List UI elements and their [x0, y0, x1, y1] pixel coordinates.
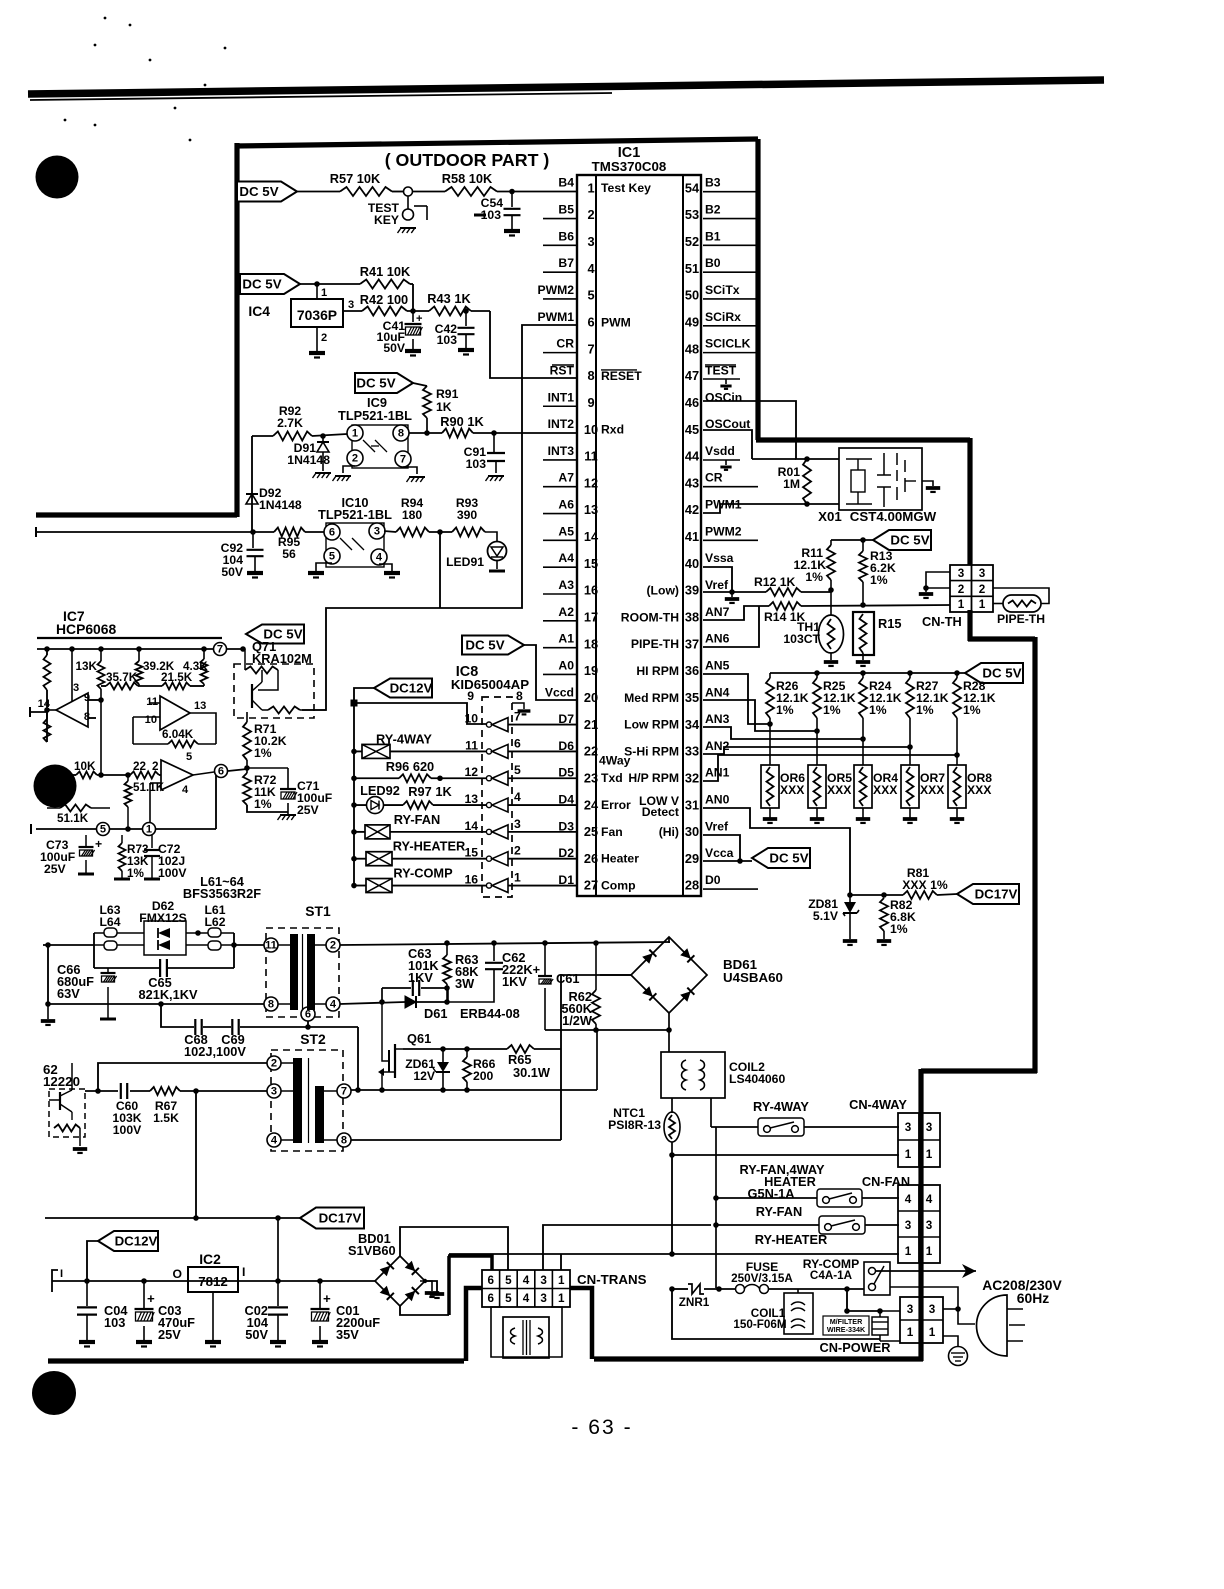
svg-text:40: 40 [685, 556, 699, 571]
wire left exit [36, 527, 274, 537]
svg-text:CST4.00MGW: CST4.00MGW [850, 509, 937, 524]
IC1 pin 31 AN0 [685, 793, 730, 813]
power flag DC 5V (IC8) [462, 636, 524, 655]
svg-text:3: 3 [271, 1086, 277, 1098]
wire [407, 308, 429, 314]
svg-text:12220: 12220 [43, 1074, 80, 1089]
svg-text:RY-FAN: RY-FAN [394, 812, 440, 827]
svg-text:32: 32 [685, 770, 699, 785]
svg-text:Vccd: Vccd [545, 685, 574, 699]
svg-text:L62: L62 [204, 915, 225, 929]
IC1 inner label PWM [601, 315, 631, 329]
svg-text:R97 1K: R97 1K [408, 784, 452, 799]
IC1 inner label Test Key [601, 181, 651, 195]
LED91 [446, 532, 506, 571]
svg-text:26: 26 [584, 851, 598, 866]
wire stub pin 13 [543, 513, 577, 515]
ground IC9 pin7 [403, 467, 425, 482]
wire [410, 284, 413, 311]
wire Q61 drain row [403, 1046, 507, 1052]
svg-text:AN0: AN0 [705, 793, 730, 807]
wire D5 output row [508, 777, 577, 779]
resistor 22 [130, 760, 161, 779]
relay coil RY-4WAY [354, 731, 487, 758]
svg-text:1: 1 [905, 1245, 912, 1258]
wire IC8 bus [351, 703, 357, 888]
IC1 inner label HI RPM [636, 664, 679, 678]
svg-text:13K: 13K [76, 660, 98, 673]
svg-text:Vref: Vref [705, 819, 729, 833]
varistor ZNR1 [679, 1284, 710, 1309]
svg-text:X01: X01 [818, 509, 842, 524]
resistor R73 13K 1% [114, 835, 149, 880]
svg-text:1: 1 [558, 1274, 565, 1287]
IC1 inner label Error [601, 798, 631, 812]
capacitor C91 103 [464, 433, 505, 481]
relay coil RY-FAN [354, 812, 487, 839]
power flag DC17V (R81) [957, 884, 1019, 904]
svg-text:1: 1 [907, 1326, 914, 1339]
svg-text:13: 13 [464, 792, 478, 806]
svg-text:SCICLK: SCICLK [705, 337, 751, 351]
svg-text:3: 3 [905, 1219, 912, 1232]
power flag DC 5V (TH) [873, 530, 931, 550]
IC1 inner label Heater [601, 852, 639, 866]
svg-text:A0: A0 [558, 658, 574, 672]
wire stub pin 12 [543, 486, 577, 488]
svg-text:5: 5 [186, 751, 192, 763]
resistor R28 12.1K 1% [953, 673, 996, 758]
label L61-64 BFS3563R2F [183, 874, 261, 901]
wire Q61 source row [379, 1072, 597, 1093]
svg-text:S-Hi RPM: S-Hi RPM [624, 744, 679, 758]
op-amp U1 IC1 TMS370C08 body [577, 175, 701, 896]
wire R67 to DC17V rail [195, 1091, 197, 1218]
IC1 pin 35 AN4 [685, 685, 730, 705]
svg-text:35: 35 [685, 690, 699, 705]
svg-text:LED91: LED91 [446, 555, 484, 569]
svg-text:(Hi): (Hi) [659, 825, 679, 839]
relay coil RY-COMP [354, 866, 487, 893]
wire COIL1 loop [672, 1289, 880, 1339]
resistor 39.2K [136, 649, 175, 686]
IC1 inner label Med RPM [624, 691, 679, 705]
wire INT2 net [473, 430, 577, 436]
IC1 pin 43 CR [685, 471, 723, 491]
wire stub pin 5 [543, 298, 577, 300]
svg-text:CN-4WAY: CN-4WAY [849, 1097, 907, 1112]
svg-text:2: 2 [979, 583, 986, 596]
wire stub pin 51 [703, 271, 758, 273]
svg-text:R58 10K: R58 10K [442, 171, 493, 186]
wire stub pin 52 [703, 244, 758, 246]
IC8 buffer pin 5 [464, 763, 521, 785]
svg-text:CN-POWER: CN-POWER [819, 1340, 890, 1355]
wire AN0 [703, 808, 850, 895]
wire AN6 [703, 606, 759, 647]
IC8 buffer pin 3 [464, 817, 521, 839]
ground IC10 pin5 [308, 563, 332, 578]
svg-text:9: 9 [84, 692, 90, 704]
thermistor TH1 103CT [783, 592, 843, 666]
svg-text:7: 7 [514, 710, 521, 724]
svg-text:HI RPM: HI RPM [636, 664, 679, 678]
wire CN-FAN pin1 row [449, 1251, 899, 1257]
svg-text:5.1V: 5.1V [813, 909, 839, 923]
svg-text:XXX: XXX [967, 783, 992, 797]
svg-text:8: 8 [516, 689, 523, 703]
svg-text:ZNR1: ZNR1 [679, 1296, 710, 1309]
svg-text:AN2: AN2 [705, 739, 730, 753]
svg-text:BFS3563R2F: BFS3563R2F [183, 886, 261, 901]
wire left bracket [30, 707, 47, 717]
IC1 inner label Comp [601, 879, 636, 893]
wire DC12V drop [84, 1241, 98, 1284]
capacitor C42 103 [435, 311, 475, 355]
IC1 pin 30 Vref [685, 819, 729, 839]
svg-text:6: 6 [587, 315, 594, 330]
svg-text:PWM: PWM [601, 315, 631, 329]
svg-text:1%: 1% [776, 703, 794, 717]
wire D1 output row [508, 885, 577, 887]
svg-text:2: 2 [330, 940, 336, 952]
svg-text:4: 4 [523, 1292, 530, 1305]
svg-text:47: 47 [685, 368, 699, 383]
svg-text:2: 2 [352, 453, 358, 465]
wire [300, 281, 360, 287]
wire stub pin 9 [543, 405, 577, 407]
wire DC17V rail [45, 1215, 300, 1221]
wire IC8 pin10 [354, 703, 487, 724]
wire ST1 pin4 row [340, 988, 405, 1005]
wire [312, 433, 347, 439]
svg-text:42: 42 [685, 502, 699, 517]
svg-text:1: 1 [146, 824, 152, 836]
resistor 4.3K [183, 649, 208, 686]
wire stub pin 28 [703, 888, 758, 890]
wire relay bus [713, 1127, 719, 1288]
svg-text:25V: 25V [44, 862, 67, 876]
svg-text:CN-TH: CN-TH [922, 614, 962, 629]
IC7 label [37, 608, 222, 638]
svg-text:DC 5V: DC 5V [239, 184, 278, 199]
wire stub pin 2 [543, 218, 577, 220]
wire BD01 bottom [400, 1256, 492, 1315]
relay coil RY-HEATER [354, 839, 487, 866]
svg-text:1%: 1% [823, 703, 841, 717]
IC8 buffer pin 1 [464, 871, 521, 893]
svg-text:6: 6 [488, 1292, 495, 1305]
resistor R94 180 [396, 496, 429, 537]
wire [768, 1286, 864, 1292]
svg-text:25: 25 [584, 824, 598, 839]
svg-text:Vssa: Vssa [705, 551, 734, 565]
resistor OR6 XXX [761, 724, 805, 823]
ground IC9 pin2 [333, 466, 356, 481]
IC1 pin 41 PWM2 [685, 524, 742, 544]
wire ST1 lower [45, 945, 265, 1007]
svg-text:ST1: ST1 [305, 903, 331, 919]
IC1 inner label Fan [601, 825, 623, 839]
capacitor C68 [195, 1019, 201, 1035]
diode D92 1N4148 [246, 486, 302, 512]
IC8 buffer pin 4 [464, 790, 521, 812]
svg-text:5: 5 [587, 288, 594, 303]
wire RY-COMP to filter [844, 1289, 880, 1314]
svg-text:AN5: AN5 [705, 658, 730, 672]
IC1 pin 33 AN2 [685, 739, 730, 759]
svg-text:RY-FAN: RY-FAN [756, 1204, 802, 1219]
ground C66 leg [41, 1004, 55, 1025]
wire R72 bottom [247, 805, 288, 812]
IC1 pin 8 RST [550, 363, 595, 383]
svg-text:51.1K: 51.1K [57, 812, 89, 825]
wire Q61 gate [382, 1002, 389, 1061]
IC1 inner label (Hi) [659, 825, 679, 839]
resistor R71 10.2K 1% [243, 712, 287, 773]
capacitor C69 [184, 1019, 246, 1059]
svg-text:XXX: XXX [827, 783, 852, 797]
IC1 pin 4 B7 [558, 256, 595, 276]
svg-text:9: 9 [587, 395, 594, 410]
svg-text:H/P RPM: H/P RPM [628, 771, 679, 785]
svg-text:1%: 1% [870, 573, 888, 587]
ground near CN-TRANS [420, 1279, 439, 1297]
IC1 inner label Txd [601, 771, 623, 785]
node 7 [214, 643, 244, 656]
wire OSCin [703, 401, 839, 459]
svg-text:39: 39 [685, 583, 699, 598]
IC1 pin 24 D4 [558, 793, 599, 813]
svg-text:R91: R91 [436, 387, 459, 401]
svg-text:OSCin: OSCin [705, 390, 742, 404]
svg-text:C61: C61 [556, 971, 579, 986]
title OUTDOOR PART [385, 150, 550, 170]
IC1 pin 37 AN6 [685, 632, 730, 652]
IC1 pin 25 D3 [558, 819, 598, 839]
resistor R25 12.1K 1% [813, 673, 856, 734]
IC8 buffer pin 6 [465, 736, 521, 758]
ground Vsdd pin44 [703, 460, 740, 470]
IC1 inner label S-Hi RPM [624, 744, 679, 758]
svg-text:D0: D0 [705, 873, 721, 887]
wire CN-TRANS pin3 up [543, 1225, 711, 1270]
wire [497, 189, 577, 195]
svg-text:16: 16 [584, 583, 598, 598]
resistor R57 10K [330, 171, 392, 196]
svg-text:23: 23 [584, 770, 598, 785]
diode D61 ERB44-08 [405, 996, 520, 1021]
IC1 pin 7 CR [556, 337, 594, 357]
IC1 pin 16 A3 [558, 578, 598, 598]
power flag DC12V (rail) [98, 1231, 158, 1251]
resistor R81 XXX 1% [902, 866, 957, 899]
svg-text:Rxd: Rxd [601, 423, 624, 437]
IC1 inner label (Low) [647, 584, 680, 598]
wire bank rail [770, 670, 965, 676]
IC1 pin 52 B1 [685, 229, 721, 249]
svg-text:19: 19 [584, 663, 598, 678]
svg-text:5: 5 [100, 824, 106, 836]
svg-text:2: 2 [514, 844, 521, 858]
labels L63 L64 D62 L61 L62 [99, 899, 225, 929]
resistor R43 1K [427, 291, 471, 316]
svg-text:6: 6 [305, 1009, 311, 1021]
IC1 inner label Rxd [601, 423, 624, 437]
op-amp IC7c [161, 751, 214, 796]
power flag DC 5V (top) [237, 182, 297, 202]
resistor OR4 XXX [854, 739, 898, 823]
IC1 pin 5 PWM2 [537, 283, 594, 303]
resistor R13 6.2K 1% [859, 540, 896, 605]
svg-text:Error: Error [601, 798, 631, 812]
svg-text:A7: A7 [558, 471, 574, 485]
capacitor C01 2200uF 35V [311, 1281, 381, 1347]
IC1 pin 20 Vccd [545, 685, 598, 705]
resistor R93 390 [452, 496, 485, 537]
relay contact RY-FAN [756, 1189, 862, 1219]
svg-text:ERB44-08: ERB44-08 [460, 1006, 520, 1021]
wire NTC1 bottom [669, 1142, 899, 1254]
svg-text:FMX12S: FMX12S [139, 911, 186, 925]
svg-text:R42 100: R42 100 [360, 292, 408, 307]
ground TEST pin47 [703, 379, 740, 389]
svg-text:3: 3 [587, 234, 594, 249]
svg-text:LED92: LED92 [360, 783, 400, 798]
svg-text:3: 3 [905, 1121, 912, 1134]
wire op3 lower input [150, 783, 161, 829]
resistor R24 12.1K 1% [859, 673, 902, 742]
wire [384, 531, 396, 532]
svg-text:1%: 1% [963, 703, 981, 717]
IC1 pin 54 B3 [685, 176, 721, 196]
svg-text:+: + [323, 1291, 331, 1306]
svg-text:31: 31 [685, 797, 699, 812]
svg-text:100V: 100V [158, 866, 187, 880]
wire BD61 top [660, 937, 670, 943]
IC1 pin 18 A1 [558, 632, 598, 652]
wire Vccd [524, 645, 577, 700]
svg-text:A6: A6 [558, 498, 574, 512]
svg-text:1%: 1% [890, 922, 908, 936]
IC8 buffer pin 7 [464, 710, 521, 732]
border frame [36, 139, 1037, 1361]
svg-text:DC12V: DC12V [390, 680, 433, 695]
svg-text:I: I [242, 1265, 245, 1279]
bridge BD01 S1VB60 [348, 1231, 425, 1306]
wire stub pin 48 [703, 352, 758, 354]
svg-text:B3: B3 [705, 176, 721, 190]
svg-text:4: 4 [376, 552, 383, 564]
svg-text:SCiRx: SCiRx [705, 310, 741, 324]
svg-text:7: 7 [341, 1086, 347, 1098]
svg-text:INT1: INT1 [548, 390, 575, 404]
IC4 7036P [248, 284, 354, 358]
wire stub pin 11 [543, 459, 577, 461]
IC1 pin 11 INT3 [548, 444, 598, 464]
svg-text:12V: 12V [413, 1069, 436, 1083]
svg-text:1: 1 [587, 180, 594, 195]
svg-text:RESET: RESET [601, 369, 642, 383]
IC1 label [592, 145, 667, 174]
svg-text:DC 5V: DC 5V [769, 850, 808, 865]
svg-text:DC 5V: DC 5V [890, 532, 929, 547]
labels RY-FAN 4WAY HEATER G5N-1A [739, 1162, 825, 1201]
connector CN-TH [922, 565, 993, 629]
wire stub pin 41 [703, 539, 758, 541]
resistor R42 100 [360, 292, 408, 316]
svg-text:3: 3 [348, 299, 354, 311]
svg-text:3: 3 [540, 1292, 547, 1305]
svg-text:Vsdd: Vsdd [705, 444, 735, 458]
thermistor PIPE-TH [993, 588, 1049, 626]
svg-text:180: 180 [402, 508, 423, 522]
svg-text:(Low): (Low) [647, 584, 680, 598]
svg-text:1: 1 [905, 1148, 912, 1161]
svg-text:7036P: 7036P [297, 307, 337, 323]
capacitor C04 103 [77, 1281, 128, 1347]
svg-text:60Hz: 60Hz [1017, 1290, 1049, 1306]
svg-text:15: 15 [584, 556, 598, 571]
capacitor C73 100uF 25V [40, 835, 102, 876]
svg-text:7: 7 [587, 341, 594, 356]
transistor Q62 [43, 1062, 87, 1153]
wire BD61 bottom [668, 1013, 670, 1052]
svg-text:8: 8 [268, 999, 274, 1011]
svg-text:2: 2 [958, 583, 965, 596]
svg-text:XXX: XXX [780, 783, 805, 797]
svg-text:38: 38 [685, 610, 699, 625]
wire stub pin 17 [543, 620, 577, 622]
wire R62 bottom row [545, 1027, 672, 1033]
wire HV rail [340, 940, 670, 946]
wire COIL2 left down [671, 1098, 673, 1113]
IC1 pin 28 D0 [685, 873, 721, 893]
wire ST2 pin2 [98, 1063, 267, 1089]
svg-text:IC2: IC2 [199, 1251, 221, 1267]
svg-text:WIRE-334K: WIRE-334K [827, 1325, 866, 1334]
LED92 and resistor R97 1K [354, 783, 487, 814]
svg-text:Txd: Txd [601, 771, 623, 785]
svg-text:DC 5V: DC 5V [242, 276, 281, 291]
wire stub pin 50 [703, 298, 758, 300]
wire Q62 row [85, 1088, 118, 1094]
svg-text:OSCout: OSCout [705, 417, 750, 431]
wire C68 branch [161, 1004, 194, 1027]
power flag DC 5V (IC9) [355, 373, 413, 393]
svg-text:1K: 1K [436, 400, 452, 414]
resistor R62 560K 1/2W [561, 943, 600, 1033]
svg-text:B5: B5 [558, 203, 574, 217]
svg-text:3: 3 [514, 817, 521, 831]
resistor R26 12.1K 1% [766, 673, 809, 727]
ground IC10 pin4 [379, 564, 400, 578]
svg-text:CN-FAN: CN-FAN [862, 1174, 910, 1189]
capacitor C71 100uF 25V [247, 768, 332, 820]
coil COIL2 LS404060 [661, 1052, 785, 1098]
svg-text:PWM2: PWM2 [705, 524, 742, 538]
svg-text:Heater: Heater [601, 852, 639, 866]
resistor R11 12.1K 1% [793, 540, 835, 589]
svg-text:1%: 1% [254, 797, 272, 811]
IC1 pin 29 Vcca [685, 846, 734, 866]
svg-text:45: 45 [685, 422, 699, 437]
IC1 pin 51 B0 [685, 256, 721, 276]
resistor R41 10K [360, 264, 411, 289]
wire to RST [463, 308, 577, 378]
wire [716, 1224, 819, 1226]
wire stub pin 19 [543, 673, 577, 675]
